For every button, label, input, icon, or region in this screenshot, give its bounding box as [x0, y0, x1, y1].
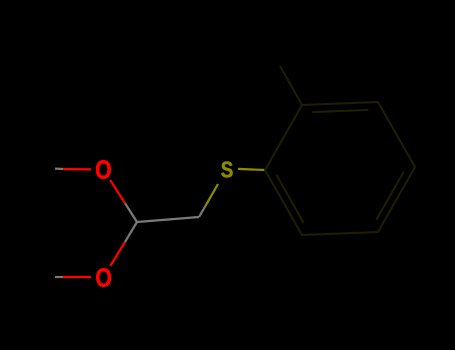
wire: bond S-C1(ring), S side — [238, 169, 265, 170]
wire: bond O1-CH(acetal), C side — [125, 203, 137, 222]
wire: aromatic inner line C4=C5 (bottom right) — [376, 172, 403, 220]
wire: bond CH2-S, S side — [206, 184, 219, 206]
wire: bond O2-CH(acetal), C side — [125, 222, 137, 242]
wire: aromatic inner line C2=C3 (top) — [312, 110, 368, 112]
wire: methyl C tip of top methoxy — [55, 168, 64, 171]
wire: bond CH2-S, C side — [199, 206, 206, 217]
wire: methyl on ring C2 — [280, 66, 302, 105]
wire: bond CH3-O (bottom), O side — [63, 276, 91, 278]
benzene ring C1-C6 (dark) — [265, 102, 415, 235]
wire: bond CH3-O (top), O side — [63, 168, 91, 171]
wire: bond CH(acetal)-CH2 — [137, 217, 199, 222]
wire: bond O2-CH(acetal), O side — [110, 242, 125, 266]
svg-text:O: O — [95, 155, 112, 185]
wire: aromatic inner line C6=C1 (bottom left) — [276, 175, 303, 223]
wire: bond O1-CH(acetal), O side — [110, 180, 125, 203]
svg-text:O: O — [95, 262, 112, 292]
wire: methyl C tip of bottom methoxy — [55, 276, 64, 278]
svg-text:S: S — [221, 156, 234, 182]
